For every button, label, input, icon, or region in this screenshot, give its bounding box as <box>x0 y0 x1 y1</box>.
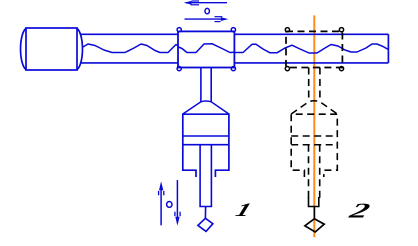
tool 1 stem <box>200 68 202 102</box>
drill diamond 1 <box>198 218 213 231</box>
tool 2 tent (dashed) <box>291 101 337 114</box>
shaft top line <box>80 33 178 35</box>
right-pointing arrow (top annotation) <box>185 18 226 20</box>
motor body <box>26 28 77 70</box>
centerline of position 2 (orange) <box>313 15 315 237</box>
tool 1 body <box>183 114 229 177</box>
tool 2 quill (dashed) <box>308 145 310 198</box>
tool 1 body band lines <box>183 135 229 137</box>
tool 2 quill bottom (solid) <box>309 197 319 207</box>
left-pointing arrow (top annotation) <box>186 2 227 4</box>
carriage block 1 <box>178 31 234 67</box>
shaft right end <box>387 34 389 63</box>
tool 1 quill <box>200 145 211 207</box>
tool 1 tip line <box>204 207 206 219</box>
motor right cap <box>77 29 82 70</box>
tool 2 stem (dashed) <box>308 68 310 102</box>
motor left cap <box>21 29 26 70</box>
feed circle <box>167 202 172 208</box>
up arrow (feed annotation) <box>160 189 162 225</box>
tool 1 tent <box>183 101 229 114</box>
tool 2 body (dashed) <box>291 114 337 177</box>
carriage block 2 (dashed phantom) <box>286 31 342 67</box>
svg-text:1: 1 <box>233 199 254 220</box>
wave inside block 1 <box>178 44 234 53</box>
rotation circle (top annotation) <box>205 8 209 13</box>
block 1 corner circles <box>177 28 181 32</box>
block 2 corner circles <box>285 28 289 32</box>
shaft bottom line <box>80 62 178 64</box>
tool 2 tip line <box>313 207 315 219</box>
down arrow (feed annotation) <box>176 180 178 217</box>
drill diamond 2 <box>305 219 324 232</box>
tool 2 band lines (dashed) <box>291 135 337 137</box>
svg-text:2: 2 <box>346 199 374 222</box>
spline wave along shaft <box>83 44 388 53</box>
